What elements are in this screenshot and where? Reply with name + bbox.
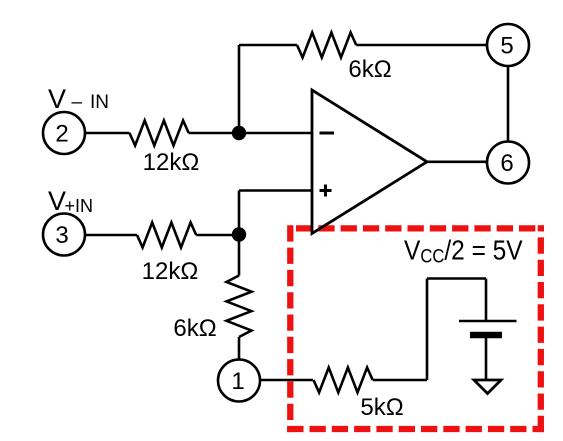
wire top right xyxy=(356,44,487,47)
wire battery to ground xyxy=(485,338,488,380)
svg-text:12kΩ: 12kΩ xyxy=(142,258,199,285)
wire R4 to pin1 xyxy=(238,337,241,360)
resistor R5 5k xyxy=(314,368,373,393)
node 2 terminal circle xyxy=(43,112,85,154)
svg-text:6kΩ: 6kΩ xyxy=(348,56,391,83)
op-amp U1 triangle xyxy=(312,90,427,234)
wire node B up xyxy=(238,191,241,235)
wire R2 to node B xyxy=(196,234,239,237)
svg-text:12kΩ: 12kΩ xyxy=(143,149,200,176)
svg-text:6kΩ: 6kΩ xyxy=(173,315,216,342)
wire top left xyxy=(239,44,297,47)
resistor R2 12k xyxy=(137,223,196,248)
node 1 terminal circle xyxy=(218,360,260,402)
svg-text:1: 1 xyxy=(231,368,244,395)
wire pin1 to R5 xyxy=(260,379,313,382)
svg-text:6: 6 xyxy=(500,150,513,177)
wire pin3 to R2 xyxy=(85,234,137,237)
wire op-amp output xyxy=(427,161,487,164)
node A junction dot xyxy=(232,126,246,140)
resistor R4 6k vertical xyxy=(227,276,252,338)
node 5 terminal circle xyxy=(487,24,529,66)
wire node B down xyxy=(238,235,241,276)
ground xyxy=(474,380,501,394)
svg-text:VCC/2 = 5V: VCC/2 = 5V xyxy=(404,234,523,267)
wire down to battery xyxy=(485,279,488,322)
label Vcc/2 = 5V xyxy=(404,234,523,267)
wire pin2 to R1 xyxy=(85,132,130,135)
red dashed box xyxy=(287,225,544,432)
svg-text:V+IN: V+IN xyxy=(48,186,93,216)
svg-text:2: 2 xyxy=(55,121,68,148)
wire up to vcc rail xyxy=(426,279,429,381)
svg-text:5kΩ: 5kΩ xyxy=(360,394,403,421)
svg-text:3: 3 xyxy=(55,222,68,249)
resistor R3 6k feedback xyxy=(297,33,356,58)
op-amp plus sign xyxy=(320,189,332,192)
wire node A up xyxy=(238,45,241,133)
node B junction dot xyxy=(232,227,246,241)
svg-text:V–IN: V–IN xyxy=(48,84,109,114)
node 6 terminal circle xyxy=(487,142,529,184)
battery V1 minus plate xyxy=(470,332,502,339)
svg-text:5: 5 xyxy=(500,33,513,60)
resistor R1 12k xyxy=(130,121,189,146)
wire node5 to node6 xyxy=(507,66,510,142)
wire to non-inverting input xyxy=(239,189,312,192)
op-amp minus sign xyxy=(320,132,335,135)
wire vcc rail horizontal xyxy=(427,277,486,280)
wire R1 to inverting input xyxy=(189,132,312,135)
node 3 terminal circle xyxy=(43,214,85,256)
battery V1 plus plate xyxy=(459,320,517,323)
wire R5 right xyxy=(373,379,427,382)
